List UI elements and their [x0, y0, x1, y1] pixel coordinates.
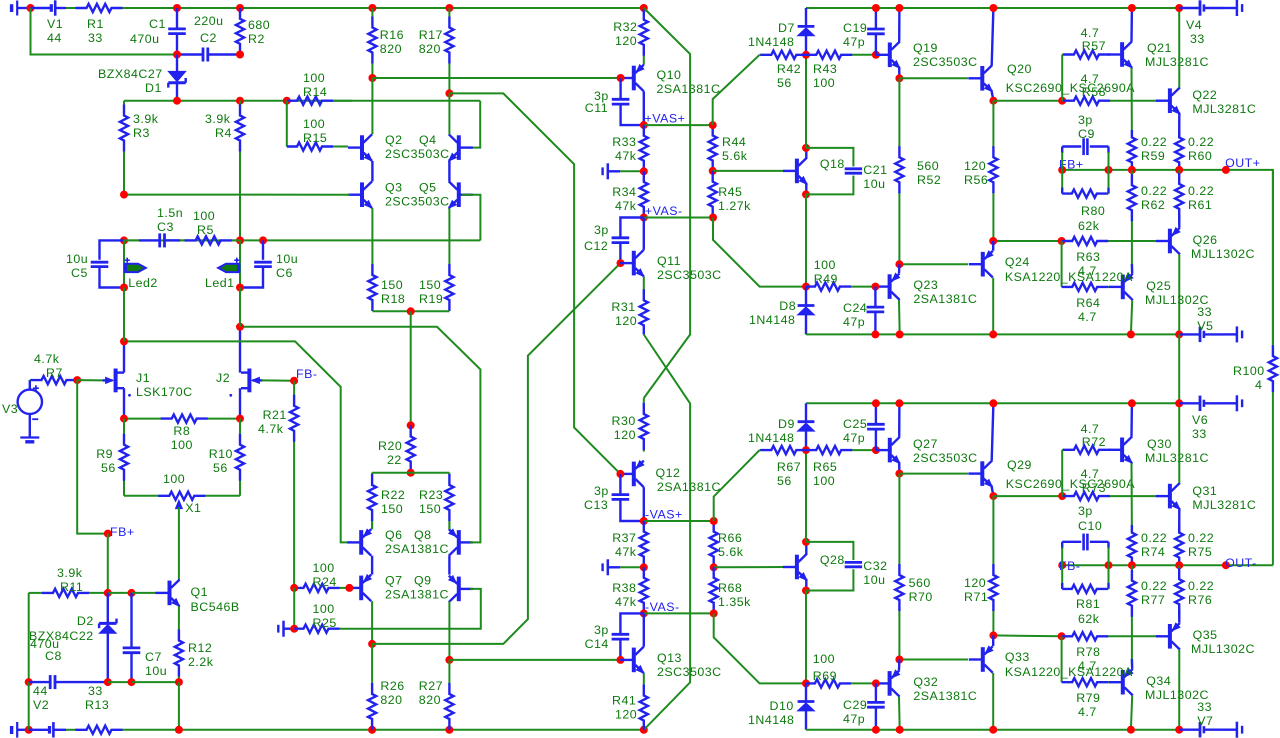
svg-text:Q19: Q19 — [913, 41, 938, 55]
net label -VAS+ — [645, 508, 683, 522]
svg-text:1.27k: 1.27k — [718, 199, 751, 213]
junction Q28 emitter — [802, 587, 810, 595]
svg-text:KSC2690_KSC2690A: KSC2690_KSC2690A — [1006, 477, 1135, 491]
svg-text:820: 820 — [380, 693, 402, 707]
svg-text:R24: R24 — [313, 575, 337, 589]
transistor Q18 2SC3503C — [783, 157, 845, 184]
wire — [1223, 729, 1237, 731]
svg-text:R67: R67 — [777, 460, 801, 474]
node FB- (output) — [1058, 561, 1066, 569]
svg-text:820: 820 — [419, 42, 441, 56]
svg-text:47k: 47k — [615, 199, 637, 213]
svg-text:C11: C11 — [585, 101, 608, 115]
resistor R12 2.2k — [175, 606, 214, 682]
junction R66 top — [710, 517, 718, 525]
resistor R33 47k — [612, 125, 648, 171]
junction R3/Q3 base — [120, 191, 128, 199]
svg-text:Q33: Q33 — [1005, 650, 1030, 664]
transistor Q29 KSC2690 — [968, 458, 1135, 491]
svg-text:R61: R61 — [1188, 198, 1212, 212]
wire Q19 collector — [898, 8, 901, 42]
junction Q18 collector — [802, 144, 810, 152]
wire to Q1 base — [132, 592, 157, 594]
resistor R68 1.35k — [710, 567, 752, 613]
svg-text:3.9k: 3.9k — [133, 112, 159, 126]
svg-text:R20: R20 — [378, 439, 402, 453]
resistor R37 47k — [612, 521, 648, 567]
svg-text:0.22: 0.22 — [1188, 184, 1214, 198]
svg-text:C29: C29 — [843, 698, 867, 712]
junction R14 left — [283, 97, 291, 105]
resistor R16 820 — [368, 8, 404, 78]
svg-text:3p: 3p — [594, 484, 609, 498]
svg-text:R23: R23 — [419, 488, 443, 502]
wire Q7 collector to Q11 base — [372, 263, 620, 644]
wire Q21 emitter — [1131, 68, 1133, 137]
wire Q18 emitter — [805, 183, 807, 194]
wire — [28, 682, 30, 730]
svg-text:D8: D8 — [779, 299, 796, 313]
svg-text:D10: D10 — [770, 699, 794, 713]
net label -VAS- — [645, 600, 680, 614]
resistor R26 820 — [368, 644, 405, 730]
svg-text:100: 100 — [813, 474, 835, 488]
wire Q8-Q9 — [448, 556, 450, 575]
svg-text:R65: R65 — [813, 460, 837, 474]
wire Q24 emitter — [992, 241, 994, 251]
junction R69/D10 — [802, 679, 810, 687]
svg-text:R2: R2 — [248, 32, 265, 46]
node OUT- — [1222, 561, 1230, 569]
junction C29 top — [872, 679, 880, 687]
svg-text:C24: C24 — [843, 301, 867, 315]
node FB+ flag — [104, 530, 112, 538]
svg-text:R26: R26 — [380, 679, 404, 693]
wire Q18 emitter to R49 — [805, 194, 807, 286]
svg-text:R75: R75 — [1188, 545, 1212, 559]
net label +VAS+ — [645, 112, 686, 126]
svg-text:1N4148: 1N4148 — [748, 35, 794, 49]
transistor Q24 KSA1220A — [969, 251, 1133, 284]
transistor Q19 2SC3503C — [876, 41, 978, 69]
wire Q2 collector — [371, 78, 373, 134]
junction R4 top — [236, 97, 244, 105]
wire — [284, 628, 295, 630]
svg-text:C2: C2 — [200, 31, 217, 45]
resistor R22 150 — [368, 473, 405, 530]
junction R12 bottom — [175, 678, 183, 686]
junction Q32 emitter — [895, 656, 903, 664]
zener diode D1 BZX84C27 — [98, 55, 186, 101]
wire Q34 emitter — [1131, 659, 1134, 669]
junction R56 bottom — [989, 237, 997, 245]
resistor R5 100 — [180, 209, 240, 245]
wire to C7 — [108, 592, 132, 594]
wire FB+ to R11 row — [107, 534, 109, 593]
svg-text:Q4: Q4 — [419, 133, 437, 147]
svg-text:Q8: Q8 — [414, 528, 432, 542]
svg-text:BC546B: BC546B — [191, 600, 240, 614]
resistor R65 100 — [806, 446, 876, 488]
wire Led1 to J2 — [239, 288, 241, 327]
junction — [368, 4, 376, 12]
wire +33 rail — [806, 7, 1179, 9]
svg-text:R72: R72 — [1082, 435, 1106, 449]
resistor R49 100 — [806, 258, 875, 291]
wire — [132, 681, 179, 683]
capacitor C32 10u — [845, 559, 888, 587]
svg-text:LSK170C: LSK170C — [136, 385, 193, 399]
junction rail Q21 — [1128, 4, 1136, 12]
resistor R81 element — [1062, 585, 1108, 593]
wire Q32 to Q33 base — [899, 659, 968, 661]
wire V1- to C1 bottom — [31, 8, 178, 55]
svg-text:C5: C5 — [71, 266, 88, 280]
svg-text:680: 680 — [248, 18, 270, 32]
wire to J1 gate — [77, 379, 103, 381]
wire — [644, 520, 714, 522]
diode D9 1N4148 — [748, 403, 814, 450]
junction R49/D8 — [802, 283, 810, 291]
svg-text:V4: V4 — [1186, 18, 1202, 32]
svg-text:C6: C6 — [276, 266, 293, 280]
svg-text:R7: R7 — [46, 366, 63, 380]
wire C12 corner — [620, 218, 643, 224]
svg-text:1.5n: 1.5n — [157, 206, 183, 220]
wire Q10 collector — [643, 91, 645, 125]
junction C8 left — [25, 678, 33, 686]
node +VAS+ — [640, 121, 648, 129]
junction — [1127, 330, 1135, 338]
svg-text:R27: R27 — [419, 679, 443, 693]
capacitor C6 10u — [240, 240, 298, 287]
svg-text:120: 120 — [615, 314, 637, 328]
junction R59 — [1128, 166, 1136, 174]
svg-text:3p: 3p — [594, 223, 609, 237]
resistor R2 680 — [236, 8, 270, 55]
junction — [640, 4, 648, 12]
capacitor C19 47p — [843, 8, 885, 55]
resistor R38 47k — [612, 567, 648, 613]
svg-text:R19: R19 — [419, 292, 443, 306]
svg-text:150: 150 — [381, 502, 403, 516]
JFET J2 LSK170C — [216, 369, 262, 393]
transistor Q13 2SC3503C — [620, 647, 722, 679]
wire R78/R79 left — [1061, 636, 1063, 682]
svg-text:100: 100 — [163, 472, 185, 486]
wire Q33 emitter — [992, 635, 994, 646]
wire R23 to Q8 — [448, 521, 450, 529]
svg-text:Led1: Led1 — [205, 276, 235, 290]
resistor R76 0.22 — [1175, 565, 1214, 618]
svg-text:R78: R78 — [1076, 645, 1100, 659]
svg-text:R43: R43 — [813, 62, 837, 76]
svg-text:V3: V3 — [2, 402, 18, 416]
svg-text:R70: R70 — [909, 590, 933, 604]
svg-text:R63: R63 — [1076, 250, 1100, 264]
transistor Q34 MJL1302C — [1109, 669, 1209, 702]
junction — [989, 726, 997, 734]
wire R22 to Q6 — [371, 521, 373, 529]
wire OUT- row — [1062, 564, 1273, 566]
svg-text:C1: C1 — [149, 17, 166, 31]
diode D10 1N4148 — [748, 683, 814, 729]
svg-text:4.7k: 4.7k — [258, 422, 284, 436]
resistor R67 56 — [760, 446, 806, 488]
junction Q18 emitter — [802, 190, 810, 198]
wire — [1223, 7, 1237, 9]
wire C32 bottom — [806, 569, 853, 590]
svg-text:33: 33 — [88, 684, 103, 698]
transistor Q32 2SA1381C — [876, 670, 978, 703]
svg-text:10u: 10u — [276, 252, 298, 266]
transistor Q26 MJL1302C — [1156, 228, 1255, 261]
svg-text:KSA1220_KSA1220A: KSA1220_KSA1220A — [1005, 665, 1133, 679]
junction rail Q22 — [1175, 4, 1183, 12]
junction R63 left — [1058, 237, 1066, 245]
svg-text:D1: D1 — [145, 81, 162, 95]
svg-text:Q27: Q27 — [913, 437, 938, 451]
svg-text:820: 820 — [380, 42, 402, 56]
junction R25 left — [290, 625, 298, 633]
transistor Q12 2SA1381C — [620, 461, 721, 494]
svg-text:C14: C14 — [585, 637, 609, 651]
node FB+ (output) — [1058, 166, 1066, 174]
svg-text:R32: R32 — [613, 20, 637, 34]
wire D9 to Q28 — [805, 450, 807, 542]
transistor Q33 KSA1220A — [969, 646, 1133, 679]
junction D1 — [173, 97, 181, 105]
svg-text:-VAS+: -VAS+ — [645, 508, 683, 522]
svg-text:100: 100 — [193, 209, 215, 223]
transistor Q5 2SC3503C — [449, 181, 473, 208]
svg-text:Q12: Q12 — [656, 466, 681, 480]
ground (V7) — [1237, 722, 1242, 738]
transistor Q31 MJL3281C — [1156, 483, 1256, 512]
capacitor C21 10u — [845, 163, 888, 191]
battery V6 33V — [1179, 396, 1223, 441]
resistor R71 120 — [964, 496, 998, 635]
wire Q33 emitter row — [993, 634, 1061, 637]
svg-text:R80: R80 — [1081, 204, 1105, 218]
net label OUT+ — [1225, 156, 1260, 170]
transistor Q6 2SA1381C — [347, 528, 449, 556]
svg-text:470u: 470u — [130, 32, 160, 46]
pin marker J1 — [128, 394, 131, 397]
junction Q19 emitter — [895, 74, 903, 82]
svg-text:100: 100 — [813, 76, 835, 90]
svg-text:47p: 47p — [843, 431, 865, 445]
svg-text:10u: 10u — [863, 573, 885, 587]
wire — [644, 612, 714, 614]
wire J2 gate — [262, 379, 294, 381]
resistor R45 1.27k — [709, 171, 752, 218]
resistor R30 120 — [612, 398, 648, 452]
resistor R24 100 — [294, 561, 347, 592]
svg-text:R60: R60 — [1188, 149, 1212, 163]
wire Q11 collector — [643, 218, 645, 250]
svg-text:4.7: 4.7 — [1078, 705, 1097, 719]
wire Q10 emitter — [643, 63, 645, 66]
svg-text:56: 56 — [213, 461, 228, 475]
junction R58 left — [1058, 97, 1066, 105]
svg-text:44: 44 — [33, 684, 48, 698]
svg-text:R64: R64 — [1076, 296, 1100, 310]
junction C6 top — [259, 236, 267, 244]
wire — [178, 682, 180, 730]
svg-text:3p: 3p — [1078, 113, 1093, 127]
capacitor C11 3p — [585, 78, 630, 118]
svg-text:100: 100 — [313, 561, 335, 575]
junction D9 anode — [802, 446, 810, 454]
junction R37/R38 — [640, 563, 648, 571]
svg-text:R30: R30 — [612, 414, 636, 428]
wire R68 to R69 row — [714, 613, 806, 683]
svg-text:KSA1220_KSA1220A: KSA1220_KSA1220A — [1005, 270, 1133, 284]
wire R31 crossover — [644, 335, 690, 730]
wire Q29 emitter — [992, 487, 994, 496]
junction Q27 emitter — [895, 470, 903, 478]
wire to Q28 base — [714, 566, 784, 568]
svg-text:R33: R33 — [612, 135, 636, 149]
junction Q23 emitter — [895, 260, 903, 268]
transistor Q11 2SC3503C — [620, 250, 722, 282]
junction Led2 bottom — [120, 284, 128, 292]
capacitor C25 47p — [843, 403, 885, 450]
svg-text:R79: R79 — [1076, 691, 1100, 705]
svg-text:820: 820 — [419, 693, 441, 707]
svg-text:Q6: Q6 — [385, 528, 403, 542]
resistor R15 100 — [287, 117, 348, 151]
junction tail current — [407, 307, 415, 315]
resistor R61 0.22 — [1175, 170, 1214, 223]
net label OUT- — [1225, 556, 1257, 570]
capacitor C5 10u — [66, 240, 124, 287]
svg-text:J2: J2 — [216, 371, 230, 385]
junction C3 left — [120, 236, 128, 244]
capacitor C12 3p — [584, 223, 629, 263]
svg-text:J1: J1 — [136, 371, 150, 385]
junction R66/R68 — [710, 563, 718, 571]
junction R11/D2 — [104, 589, 112, 597]
svg-text:R22: R22 — [381, 488, 405, 502]
transistor Q27 2SC3503C — [876, 437, 978, 465]
svg-text:560: 560 — [917, 159, 939, 173]
svg-text:0.22: 0.22 — [1188, 531, 1214, 545]
resistor R9 56 — [96, 419, 128, 496]
wire Q12 collector — [643, 487, 645, 521]
wire Q4 base drop — [470, 101, 480, 148]
resistor R23 150 — [419, 473, 454, 530]
svg-text:R56: R56 — [964, 173, 988, 187]
ground (R25) — [278, 621, 283, 637]
svg-text:R66: R66 — [718, 531, 742, 545]
junction Led1 bottom — [236, 284, 244, 292]
junction R71 bottom — [989, 631, 997, 639]
resistor R59 0.22 — [1128, 130, 1167, 170]
junction R60 — [1175, 166, 1183, 174]
svg-text:R69: R69 — [813, 669, 837, 683]
svg-text:R74: R74 — [1141, 545, 1165, 559]
junction R73 left — [1058, 492, 1066, 500]
svg-text:R62: R62 — [1141, 198, 1165, 212]
wire V5-V6 link — [1178, 334, 1180, 403]
node -VAS+ — [640, 517, 648, 525]
svg-text:1N4148: 1N4148 — [748, 431, 794, 445]
wire C32 top — [806, 542, 853, 560]
wire Q23 emitter — [898, 264, 901, 273]
wire V6 rail — [806, 402, 1179, 404]
svg-text:3p: 3p — [1078, 504, 1093, 518]
transistor Q10 2SA1381C — [620, 65, 721, 96]
wire Q25 emitter — [1131, 264, 1134, 273]
junction rail Q29 — [989, 399, 997, 407]
svg-text:R15: R15 — [303, 131, 327, 145]
junction V7 — [1175, 726, 1183, 734]
junction J2 drain wire — [236, 323, 244, 331]
junction — [175, 726, 183, 734]
svg-text:4.7: 4.7 — [1081, 422, 1100, 436]
svg-text:47p: 47p — [843, 712, 865, 726]
svg-text:1N4148: 1N4148 — [749, 313, 795, 327]
svg-text:3p: 3p — [594, 623, 609, 637]
svg-text:R57: R57 — [1082, 39, 1106, 53]
svg-text:47k: 47k — [615, 149, 637, 163]
wire Q23 collector — [898, 300, 901, 334]
wire Q35 collector — [1178, 650, 1180, 730]
junction Q29 emitter — [989, 492, 997, 500]
junction — [896, 726, 904, 734]
resistor R4 3.9k — [205, 101, 244, 241]
ground (VAS mid) — [603, 163, 608, 179]
svg-text:33: 33 — [1190, 32, 1205, 46]
wire — [108, 681, 132, 683]
svg-text:0.22: 0.22 — [1141, 579, 1167, 593]
resistor R80 element — [1062, 190, 1108, 198]
svg-text:0.22: 0.22 — [1141, 135, 1167, 149]
svg-text:MJL3281C: MJL3281C — [1145, 451, 1209, 465]
junction R20 top — [407, 421, 415, 429]
svg-text:Q2: Q2 — [385, 133, 403, 147]
wire Q23 to Q24 base — [899, 263, 968, 265]
wire Q31 collector — [1178, 403, 1180, 483]
wire R73 row — [993, 495, 1062, 497]
svg-text:150: 150 — [419, 278, 441, 292]
wire Q28 emitter to R69 — [805, 591, 807, 684]
node Q2 collector / Q10 base wire — [368, 74, 376, 82]
resistor R7 4.7k — [30, 352, 77, 384]
resistor R80 62k — [1062, 170, 1108, 233]
junction — [368, 726, 376, 734]
svg-text:2SC3503C: 2SC3503C — [913, 55, 978, 69]
svg-text:Q34: Q34 — [1146, 674, 1171, 688]
wire Q35 emitter — [1178, 610, 1181, 623]
transistor Q8 2SA1381C — [449, 529, 473, 556]
svg-text:MJL3281C: MJL3281C — [1192, 498, 1256, 512]
transistor Q25 MJL1302C — [1109, 274, 1209, 307]
svg-text:33: 33 — [88, 31, 103, 45]
svg-text:Q23: Q23 — [913, 278, 938, 292]
resistor R19 150 — [419, 208, 454, 311]
junction R5 right — [236, 236, 244, 244]
svg-text:R18: R18 — [381, 292, 405, 306]
svg-text:R9: R9 — [96, 447, 113, 461]
svg-text:C21: C21 — [863, 163, 887, 177]
svg-text:2SA1381C: 2SA1381C — [913, 292, 977, 306]
svg-text:3.9k: 3.9k — [205, 112, 231, 126]
resistor R58 4.7 — [1062, 72, 1158, 105]
wire — [644, 124, 713, 126]
